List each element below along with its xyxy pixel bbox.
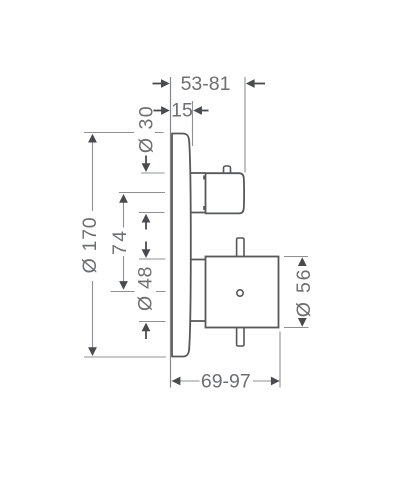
dimension 15: left arrow: [161, 106, 170, 115]
dimension 69-97: right extension line: [279, 332, 281, 388]
lower valve sleeve (Ø48): [190, 260, 206, 322]
dimension Ø30: bottom extension line: [139, 212, 165, 214]
upper sleeve step nub top: [203, 176, 205, 180]
dimension Ø56: top arrow (points up): [298, 257, 307, 266]
dimension Ø170: bottom extension line: [84, 356, 166, 358]
dimension 74: bottom arrow: [119, 281, 128, 290]
dimension Ø48: top arrow (points down): [142, 249, 151, 258]
dimension 53-81: left arrow: [161, 79, 170, 88]
dimension Ø170: bottom arrow: [88, 347, 97, 356]
svg-text:Ø 30: Ø 30: [136, 105, 158, 153]
dimension 53-81: right arrow: [246, 79, 255, 88]
lower handle center dot: [237, 290, 243, 296]
dimension Ø30: bottom arrow (points up): [142, 214, 151, 223]
dimension Ø56: bottom arrow (points down): [298, 318, 307, 327]
dimension 15: right extension line: [192, 101, 194, 146]
dimension 74: top arrow: [119, 194, 128, 203]
escutcheon plate (side view): [172, 134, 191, 357]
dimension 69-97: left arrow (points left): [172, 377, 181, 386]
dimension Ø170: top extension line (broken for Ø30 text): [84, 132, 164, 134]
dimension 69-97: dimension line: [172, 380, 280, 382]
dimension 74: top extension line: [119, 192, 165, 194]
upper valve sleeve (Ø30): [190, 173, 206, 213]
dimension 74: bottom extension line (broken for Ø48 text): [111, 291, 166, 293]
upper handle tab: [224, 166, 231, 173]
lower handle bottom tab: [237, 328, 244, 347]
lower handle body: [206, 257, 279, 328]
dimension Ø30: top arrow (points down to sleeve top ext): [142, 163, 151, 172]
dimension 15: right arrow: [193, 106, 202, 115]
dimension 53-81: right extension line: [244, 77, 246, 173]
dimension Ø56: bottom extension line: [284, 327, 309, 329]
dimension 69-97: right arrow (points right): [271, 377, 280, 386]
svg-text:Ø 56: Ø 56: [293, 268, 315, 317]
dimension Ø56: top extension line: [284, 256, 308, 258]
svg-text:74: 74: [109, 228, 131, 255]
dimension 74: dimension line: [123, 199, 125, 286]
dimension Ø48: bottom extension line: [139, 321, 166, 323]
dimension Ø48: bottom arrow (points up): [142, 323, 151, 332]
upper handle body: [206, 173, 245, 213]
dimension Ø170: top arrow: [88, 134, 97, 143]
svg-text:15: 15: [171, 100, 193, 122]
dimension Ø48: top extension line: [139, 258, 166, 260]
svg-text:Ø 48: Ø 48: [135, 266, 157, 311]
upper sleeve step nub bottom: [203, 206, 205, 210]
dimension Ø170: dimension line: [92, 140, 94, 350]
lower handle top tab: [237, 238, 244, 257]
svg-text:Ø 170: Ø 170: [79, 217, 101, 274]
svg-text:53-81: 53-81: [181, 73, 231, 95]
svg-text:69-97: 69-97: [201, 370, 251, 392]
wall line: [170, 77, 172, 388]
dimension Ø30: top extension line: [141, 172, 165, 174]
